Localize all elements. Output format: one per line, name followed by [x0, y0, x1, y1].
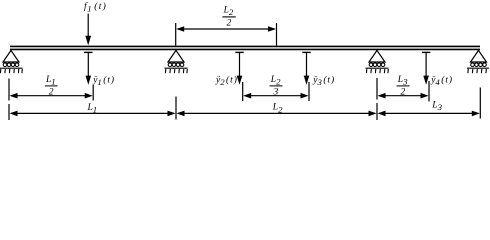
svg-text:ÿ4(t): ÿ4(t)	[430, 75, 453, 88]
svg-text:2: 2	[227, 19, 232, 29]
svg-text:L1: L1	[45, 75, 56, 87]
svg-text:L2: L2	[270, 75, 281, 87]
svg-text:L2: L2	[272, 103, 283, 115]
svg-text:ÿ2(t): ÿ2(t)	[215, 75, 238, 88]
svg-text:L3: L3	[431, 101, 442, 113]
svg-text:L1: L1	[87, 103, 98, 115]
svg-text:f1(t): f1(t)	[84, 1, 107, 14]
svg-text:ÿ3(t): ÿ3(t)	[312, 75, 335, 88]
svg-text:L2: L2	[223, 5, 234, 17]
svg-text:2: 2	[401, 87, 406, 97]
svg-text:ÿ1(t): ÿ1(t)	[92, 75, 115, 88]
svg-text:3: 3	[273, 87, 279, 97]
svg-text:L3: L3	[397, 75, 408, 87]
svg-text:2: 2	[49, 87, 54, 97]
